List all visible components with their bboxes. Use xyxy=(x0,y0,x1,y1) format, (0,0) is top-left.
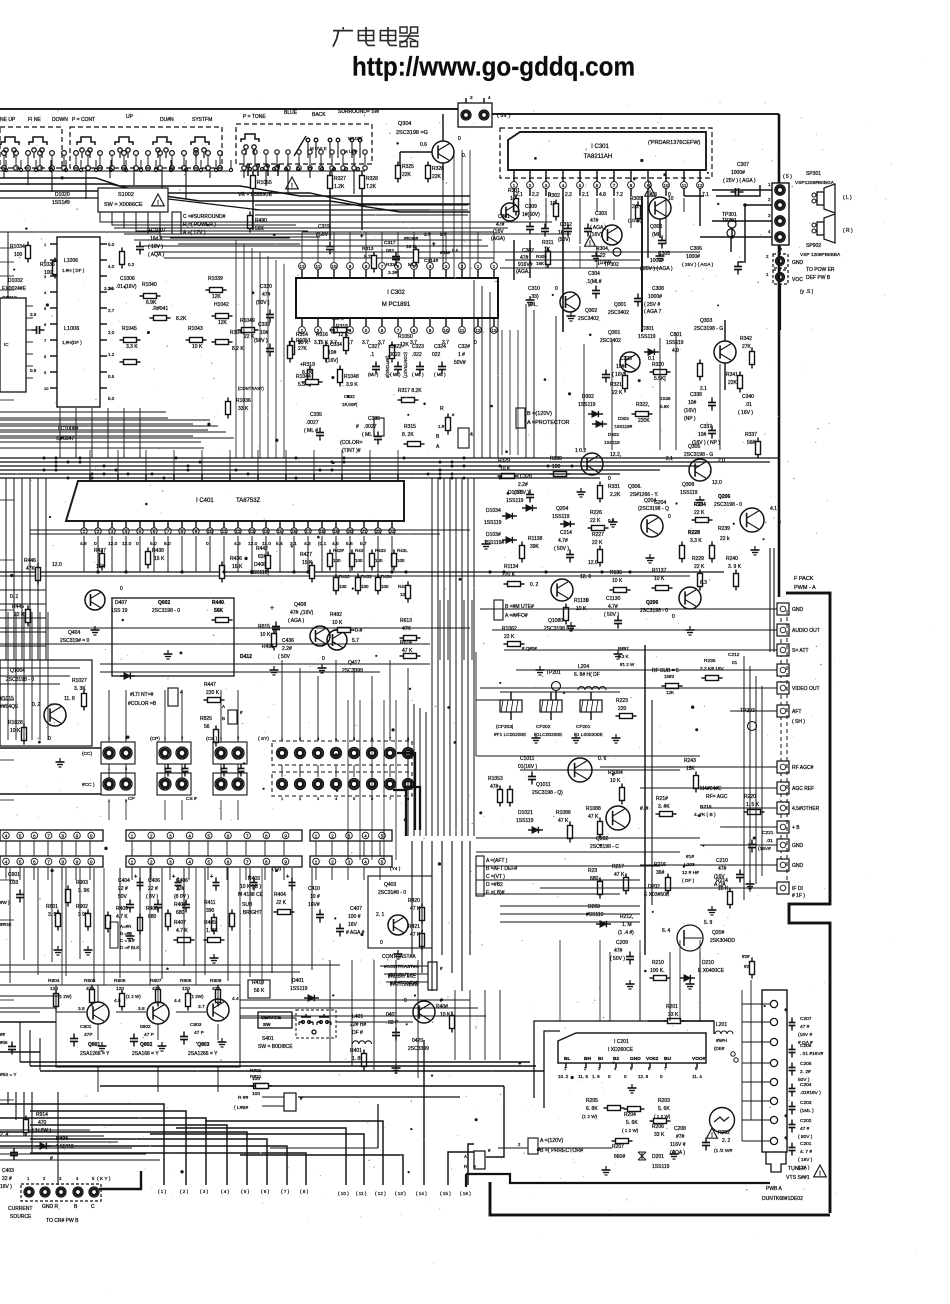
svg-text:10: 10 xyxy=(550,201,556,207)
svg-text:1. M: 1. M xyxy=(622,922,632,928)
svg-text:R914: R914 xyxy=(36,1112,48,1118)
svg-text:16K: 16K xyxy=(536,261,544,266)
svg-text:4: 4 xyxy=(180,690,183,696)
svg-text:(50V ): (50V ) xyxy=(254,338,268,344)
svg-text:SW = X0066CE: SW = X0066CE xyxy=(104,202,143,208)
svg-text:15 K: 15 K xyxy=(232,564,243,570)
svg-text:Q403: Q403 xyxy=(384,882,396,888)
svg-text:1SS119: 1SS119 xyxy=(506,498,524,504)
svg-text:10: 10 xyxy=(668,196,674,202)
svg-text:47 P: 47 P xyxy=(194,1030,204,1036)
svg-text:R1086: R1086 xyxy=(556,810,571,816)
svg-text:4.4: 4.4 xyxy=(174,998,181,1004)
svg-text:2SC3402: 2SC3402 xyxy=(578,316,599,322)
svg-text:(16V#: (16V# xyxy=(758,846,771,852)
svg-text:C205: C205 xyxy=(800,1061,812,1067)
svg-text:+: + xyxy=(286,874,289,880)
svg-text:1 #: 1 # xyxy=(458,352,465,358)
svg-text:A =(AFT ): A =(AFT ) xyxy=(486,858,508,864)
svg-text:10#: 10# xyxy=(616,364,625,370)
svg-text:8.2K: 8.2K xyxy=(302,370,313,376)
svg-text:33 P: 33 P xyxy=(388,1020,399,1026)
svg-text:VSP 1208PB0BBA: VSP 1208PB0BBA xyxy=(800,252,841,258)
svg-text:4.7#: 4.7# xyxy=(558,538,568,544)
svg-text:10 K ( B ): 10 K ( B ) xyxy=(240,884,261,890)
svg-text:R432: R432 xyxy=(361,574,372,579)
svg-text:A: A xyxy=(222,704,225,709)
svg-text:2.2 K# 16V: 2.2 K# 16V xyxy=(700,666,725,672)
svg-text:2SC3402: 2SC3402 xyxy=(608,310,629,316)
svg-text:5. 6K: 5. 6K xyxy=(658,1106,670,1112)
svg-text:2. 1: 2. 1 xyxy=(376,912,385,918)
svg-text:R207: R207 xyxy=(612,1144,624,1150)
svg-text:15K: 15K xyxy=(96,564,106,570)
svg-text:13: 13 xyxy=(491,328,497,333)
svg-text:100: 100 xyxy=(355,558,363,563)
svg-text:120: 120 xyxy=(116,986,124,992)
svg-text:C403: C403 xyxy=(2,1168,14,1174)
svg-text:!: ! xyxy=(589,241,591,247)
svg-text:I C302: I C302 xyxy=(387,290,405,296)
svg-text:3.9: 3.9 xyxy=(30,312,37,317)
svg-text:( 25V ) ( AGA ): ( 25V ) ( AGA ) xyxy=(723,178,756,184)
svg-text:R217: R217 xyxy=(612,864,624,870)
svg-text:R433: R433 xyxy=(375,548,386,553)
svg-text:SW = B0DI8CE: SW = B0DI8CE xyxy=(258,1044,293,1050)
svg-text:R491: R491 xyxy=(262,644,274,650)
svg-text:4. 7 #: 4. 7 # xyxy=(800,1149,812,1155)
svg-text:B2: B2 xyxy=(613,1056,619,1062)
svg-text:A =(120V): A =(120V) xyxy=(540,1138,563,1144)
svg-text:(1ML ): (1ML ) xyxy=(800,1108,814,1114)
svg-text:('PRDAR1376CEFW): ('PRDAR1376CEFW) xyxy=(648,140,701,146)
svg-text:R1053: R1053 xyxy=(488,776,503,782)
svg-text:TO POW ER: TO POW ER xyxy=(806,267,835,273)
svg-text:.01 (16V): .01 (16V) xyxy=(116,284,137,290)
svg-text:0: 0 xyxy=(608,1074,611,1079)
svg-text:D303: D303 xyxy=(618,416,629,421)
svg-text:R1134: R1134 xyxy=(504,564,519,570)
svg-text:L1006: L1006 xyxy=(64,258,78,264)
svg-text:TP301: TP301 xyxy=(722,212,737,218)
svg-text:!: ! xyxy=(711,1133,713,1139)
svg-text:0: 0 xyxy=(206,541,209,547)
svg-text:2.2: 2.2 xyxy=(532,192,539,198)
svg-text:470: 470 xyxy=(38,1120,47,1126)
svg-text:2SC3198 =G: 2SC3198 =G xyxy=(396,130,428,136)
svg-text:39K: 39K xyxy=(530,544,540,550)
svg-text:D103#: D103# xyxy=(486,532,501,538)
svg-text:0: 0 xyxy=(778,520,781,526)
svg-text:.1(ML#: .1(ML# xyxy=(586,279,602,285)
svg-text:#COLOR =B: #COLOR =B xyxy=(128,701,157,707)
svg-text:22# H#: 22# H# xyxy=(350,1022,366,1028)
svg-text:SP301: SP301 xyxy=(806,171,821,177)
svg-text:D412: D412 xyxy=(240,654,252,660)
svg-text:12. 0: 12. 0 xyxy=(580,574,591,580)
svg-text:L1006: L1006 xyxy=(64,326,79,332)
svg-text:( 25V #: ( 25V # xyxy=(644,302,660,308)
svg-text:100: 100 xyxy=(339,584,347,589)
svg-text:11: 11 xyxy=(222,529,227,534)
svg-text:GND: GND xyxy=(630,1056,641,1062)
svg-text:1. 5 K: 1. 5 K xyxy=(746,802,760,808)
svg-text:12: 12 xyxy=(235,529,241,534)
svg-text:# P#TONE#B: # P#TONE#B xyxy=(390,980,419,986)
svg-text:. 01 #16V#: . 01 #16V# xyxy=(800,1051,824,1057)
svg-text:.0022: .0022 xyxy=(388,352,401,358)
svg-text:( 15 ): ( 15 ) xyxy=(440,1191,451,1196)
svg-text:R806: R806 xyxy=(180,978,192,984)
svg-text:A =PROTECTOR: A =PROTECTOR xyxy=(527,420,570,426)
svg-text:(CF203|: (CF203| xyxy=(496,724,513,730)
svg-text:( 50V ): ( 50V ) xyxy=(610,956,625,962)
svg-text:GND: GND xyxy=(792,863,804,869)
svg-text:12.0: 12.0 xyxy=(122,541,132,547)
svg-text:12K: 12K xyxy=(218,320,228,326)
svg-text:R825: R825 xyxy=(200,716,212,722)
svg-text:( 5 ): ( 5 ) xyxy=(241,1189,250,1194)
svg-text:( 50V ): ( 50V ) xyxy=(554,546,569,552)
svg-text:( 25V ) ( AGA ): ( 25V ) ( AGA ) xyxy=(640,266,673,272)
svg-text:1.2K: 1.2K xyxy=(334,184,345,190)
svg-text:0: 0 xyxy=(94,541,97,547)
svg-text:D407: D407 xyxy=(115,600,127,606)
svg-text:( 7A ): ( 7A ) xyxy=(798,1165,810,1171)
svg-text::L#6047: :L#6047 xyxy=(56,436,74,442)
svg-text:12.0: 12.0 xyxy=(108,541,118,547)
svg-text:2.2#: 2.2# xyxy=(518,482,528,488)
svg-text:R309: R309 xyxy=(536,254,547,259)
svg-text:A=#R: A=#R xyxy=(120,924,132,929)
svg-text:16: 16 xyxy=(291,529,297,534)
svg-text:116V #: 116V # xyxy=(670,1142,686,1148)
svg-text:R218: R218 xyxy=(700,804,712,810)
svg-text:17: 17 xyxy=(305,529,311,534)
svg-text:R315: R315 xyxy=(404,424,416,430)
svg-text:Q206: Q206 xyxy=(646,600,658,606)
svg-text:C =(VT ): C =(VT ) xyxy=(486,874,505,880)
svg-text:3.8: 3.8 xyxy=(78,1006,85,1012)
svg-text:C203: C203 xyxy=(800,1100,812,1106)
svg-text:2SC319# = 0: 2SC319# = 0 xyxy=(60,638,90,644)
svg-text:11: 11 xyxy=(460,328,465,333)
svg-text:4.3: 4.3 xyxy=(304,541,311,547)
svg-text:R902: R902 xyxy=(76,904,88,910)
svg-text:2SC3399: 2SC3399 xyxy=(342,668,363,674)
svg-text:22 K: 22 K xyxy=(504,634,515,640)
svg-text:4.4: 4.4 xyxy=(232,996,239,1002)
svg-text:(1 2 W): (1 2 W) xyxy=(582,1114,598,1119)
svg-text:Q801: Q801 xyxy=(88,1042,100,1048)
svg-text:100: 100 xyxy=(14,252,23,258)
svg-text:R1088: R1088 xyxy=(586,806,601,812)
svg-text:DUNTK68#1DE02: DUNTK68#1DE02 xyxy=(762,1196,803,1202)
svg-text:5.0: 5.0 xyxy=(108,242,115,247)
svg-text:( L#B#: ( L#B# xyxy=(234,1105,248,1111)
svg-text:EX0024#E: EX0024#E xyxy=(2,286,27,292)
svg-text:R329: R329 xyxy=(498,458,510,464)
svg-text:F1LC00200E: F1LC00200E xyxy=(534,732,562,738)
svg-text:R228: R228 xyxy=(688,530,700,536)
svg-text:4.1: 4.1 xyxy=(770,506,777,512)
svg-text:11: 11 xyxy=(682,183,687,188)
svg-text:# 1F ): # 1F ) xyxy=(792,893,805,899)
svg-text:I C301: I C301 xyxy=(591,144,609,150)
svg-text:R43L: R43L xyxy=(397,548,408,553)
svg-text:5.6: 5.6 xyxy=(346,541,353,547)
svg-text:1,#H(DF ): 1,#H(DF ) xyxy=(62,340,82,345)
svg-text:R410: R410 xyxy=(339,574,350,579)
svg-text:4.5#OTHER: 4.5#OTHER xyxy=(792,806,820,812)
svg-text:!: ! xyxy=(649,191,651,197)
svg-text:DEF PW B: DEF PW B xyxy=(806,275,831,281)
svg-text:AGC REF: AGC REF xyxy=(792,786,814,792)
svg-text:0-#: 0-# xyxy=(355,628,362,634)
svg-text:R334: R334 xyxy=(386,262,398,268)
svg-text:860#: 860# xyxy=(614,1154,625,1160)
svg-text:Q417: Q417 xyxy=(348,660,360,666)
svg-text:B =( PRRECTOR#: B =( PRRECTOR# xyxy=(540,1148,583,1154)
svg-text:Q308: Q308 xyxy=(682,482,694,488)
svg-text:( 11 ): ( 11 ) xyxy=(356,1191,367,1196)
svg-text:. BRIGHT: . BRIGHT xyxy=(240,910,262,916)
svg-text:(ML ): (ML ) xyxy=(368,372,379,377)
svg-text:21: 21 xyxy=(361,529,367,534)
svg-text:(1 .4 #): (1 .4 #) xyxy=(618,930,634,936)
svg-text:0: 0 xyxy=(322,656,325,662)
svg-text:22K: 22K xyxy=(728,380,738,386)
svg-text:R42#: R42# xyxy=(333,548,344,553)
svg-text:8.0: 8.0 xyxy=(164,541,171,547)
svg-text:R43!: R43! xyxy=(355,548,365,553)
svg-text:Q202: Q202 xyxy=(596,836,608,842)
svg-text:R243: R243 xyxy=(684,758,696,764)
svg-text:4.7 K: 4.7 K xyxy=(176,928,188,934)
svg-text:#1#: #1# xyxy=(686,854,694,860)
svg-text:0: 0 xyxy=(668,514,671,520)
svg-text:+C1007: +C1007 xyxy=(148,228,166,234)
svg-text:GND R: GND R xyxy=(42,1204,59,1210)
svg-text:C314#: C314# xyxy=(424,258,438,264)
svg-text:1SS119: 1SS119 xyxy=(652,1164,670,1170)
svg-text:2. 4: 2. 4 xyxy=(0,1132,9,1138)
svg-text:PWM - A: PWM - A xyxy=(794,585,816,591)
svg-text:12: 12 xyxy=(299,264,305,269)
svg-text:1#,50#(: 1#,50#( xyxy=(342,402,358,407)
svg-text:10. 2: 10. 2 xyxy=(558,1074,569,1079)
svg-text:#R30#: #R30# xyxy=(404,236,418,242)
svg-text:C1130: C1130 xyxy=(606,596,621,602)
svg-text:0: 0 xyxy=(458,136,461,142)
svg-text:2.2: 2.2 xyxy=(565,192,572,198)
svg-text:R212,: R212, xyxy=(620,914,633,920)
svg-text:( ML ): ( ML ) xyxy=(362,432,375,438)
svg-text:10#: 10# xyxy=(688,400,697,406)
svg-text:R ##: R ## xyxy=(238,1095,248,1101)
svg-text:E X0400CE: E X0400CE xyxy=(698,968,725,974)
svg-text:0: 0 xyxy=(404,998,407,1004)
svg-text:R1028: R1028 xyxy=(8,720,23,726)
svg-text:W1DE(: W1DE( xyxy=(348,136,363,141)
svg-text:1.#H ( DF ): 1.#H ( DF ) xyxy=(62,268,85,273)
svg-text:GND: GND xyxy=(792,260,804,266)
svg-text:1SS119: 1SS119 xyxy=(290,986,308,992)
svg-text:R337: R337 xyxy=(745,432,757,438)
svg-text:C212: C212 xyxy=(728,652,740,658)
svg-text:R409: R409 xyxy=(116,906,128,912)
svg-text:R436: R436 xyxy=(230,556,242,562)
svg-text:#06: #06 xyxy=(0,1040,8,1045)
svg-text:C406: C406 xyxy=(176,878,188,884)
svg-text:CS #: CS # xyxy=(186,796,197,802)
svg-text:R#21: R#21 xyxy=(250,1074,262,1080)
svg-text:12K: 12K xyxy=(666,690,674,695)
svg-text:IF DI: IF DI xyxy=(792,886,803,892)
svg-text:10 K: 10 K xyxy=(500,466,511,472)
svg-text:12. 9: 12. 9 xyxy=(638,1074,649,1079)
svg-text:+: + xyxy=(432,242,436,248)
svg-text:R136: R136 xyxy=(610,570,622,576)
svg-text:4.5: 4.5 xyxy=(332,541,339,547)
svg-text:J2 K: J2 K xyxy=(276,900,287,906)
svg-text:VOO#: VOO# xyxy=(692,1056,706,1062)
svg-text:0: 0 xyxy=(120,586,123,592)
svg-text:10: 10 xyxy=(44,386,49,391)
svg-text:D1034: D1034 xyxy=(486,508,501,514)
svg-text:16V#: 16V# xyxy=(308,902,320,908)
svg-text:R440: R440 xyxy=(212,600,224,606)
svg-text:C308: C308 xyxy=(652,286,664,292)
svg-text:##: ## xyxy=(0,1032,6,1037)
svg-text:#: # xyxy=(356,424,359,430)
svg-text:2SC3198 - C: 2SC3198 - C xyxy=(590,844,619,850)
svg-text:D1032: D1032 xyxy=(8,278,23,284)
svg-text:R1043: R1043 xyxy=(188,326,203,332)
svg-text:10#: 10# xyxy=(698,432,707,438)
svg-text:22 K: 22 K xyxy=(590,518,601,524)
svg-text:C801: C801 xyxy=(80,1024,92,1030)
svg-text:'Q803: 'Q803 xyxy=(196,1042,210,1048)
svg-text:22 K: 22 K xyxy=(694,510,705,516)
svg-text:5. 6K: 5. 6K xyxy=(626,1120,638,1126)
svg-text:D408: D408 xyxy=(254,562,266,568)
svg-text:0: 0 xyxy=(672,614,675,620)
svg-text:M DVI E: M DVI E xyxy=(310,146,327,151)
svg-text:Q802: Q802 xyxy=(140,1042,152,1048)
svg-text:2. 2: 2. 2 xyxy=(722,1138,731,1144)
svg-text:Q301: Q301 xyxy=(614,302,626,308)
svg-text:Q301: Q301 xyxy=(608,330,620,336)
svg-text:56: 56 xyxy=(204,724,210,730)
svg-text:2.2#: 2.2# xyxy=(282,646,292,652)
svg-text:220: 220 xyxy=(618,706,627,712)
svg-text:10 K: 10 K xyxy=(260,632,271,638)
svg-text:C206: C206 xyxy=(800,1043,812,1049)
svg-text:C336: C336 xyxy=(368,416,380,422)
svg-text:47#: 47# xyxy=(496,222,505,228)
svg-text:C214: C214 xyxy=(560,530,572,536)
svg-text:5.7: 5.7 xyxy=(360,541,367,547)
svg-text:B =(120V): B =(120V) xyxy=(527,411,552,417)
svg-text:(1 2W): (1 2W) xyxy=(190,994,204,999)
svg-text:C436: C436 xyxy=(282,638,294,644)
svg-text:( DF ): ( DF ) xyxy=(682,878,695,884)
svg-text:!: ! xyxy=(819,1172,821,1178)
svg-text:( 5 ): ( 5 ) xyxy=(783,174,792,180)
svg-text:16V ): 16V ) xyxy=(0,1184,12,1190)
svg-text:C310: C310 xyxy=(528,286,540,292)
svg-text:R313: R313 xyxy=(362,246,374,252)
svg-text:Q204: Q204 xyxy=(556,506,568,512)
svg-text:1. 9: 1. 9 xyxy=(592,1074,600,1079)
svg-text:( K Y ): ( K Y ) xyxy=(97,1176,111,1182)
svg-text:(y .S ): (y .S ) xyxy=(800,289,814,295)
svg-text:NE UP: NE UP xyxy=(0,117,16,123)
svg-text:(CONTRAST): (CONTRAST) xyxy=(403,352,408,378)
svg-text:( 10V ): ( 10V ) xyxy=(148,244,163,250)
svg-text:22: 22 xyxy=(600,253,606,259)
svg-text:12.0: 12.0 xyxy=(712,480,722,486)
svg-text:0. 2: 0. 2 xyxy=(32,702,41,708)
svg-text:0.5: 0.5 xyxy=(108,374,115,379)
svg-text:D201: D201 xyxy=(652,1154,664,1160)
svg-text:2.1: 2.1 xyxy=(666,456,673,462)
svg-text:C210: C210 xyxy=(716,858,728,864)
svg-text:10 K: 10 K xyxy=(332,620,343,626)
svg-text:3.3#: 3.3# xyxy=(388,270,398,276)
svg-text:Q20#: Q20# xyxy=(712,930,724,936)
svg-text:5.5: 5.5 xyxy=(452,248,459,253)
svg-text:A =##FO#: A =##FO# xyxy=(505,613,528,619)
svg-text:R320: R320 xyxy=(652,362,664,368)
svg-text:RF AGC#: RF AGC# xyxy=(792,765,814,771)
svg-text:R490: R490 xyxy=(255,218,267,224)
svg-text:(AGA.: (AGA. xyxy=(516,269,530,275)
svg-text:6. 4: 6. 4 xyxy=(662,928,671,934)
svg-text:11. 4: 11. 4 xyxy=(692,1074,702,1079)
svg-text:3.7: 3.7 xyxy=(198,1004,205,1010)
svg-text:F PACK: F PACK xyxy=(794,576,814,582)
svg-text:10: 10 xyxy=(663,183,669,188)
svg-text:47K: 47K xyxy=(402,626,412,632)
svg-text:BL: BL xyxy=(564,1056,570,1062)
svg-text:R1137: R1137 xyxy=(652,568,667,574)
svg-text:23: 23 xyxy=(389,529,395,534)
svg-text:Q302: Q302 xyxy=(585,308,597,314)
svg-text:R1138: R1138 xyxy=(528,536,543,542)
svg-text:+: + xyxy=(784,1008,788,1014)
svg-text:C317: C317 xyxy=(384,240,396,246)
svg-text:Q1004: Q1004 xyxy=(10,668,25,674)
svg-text:#7#: #7# xyxy=(676,1134,685,1140)
svg-text:4.5: 4.5 xyxy=(114,998,121,1004)
svg-text:1SS119: 1SS119 xyxy=(638,334,656,340)
svg-text:5.7: 5.7 xyxy=(424,232,431,237)
svg-text:12.0: 12.0 xyxy=(52,562,62,568)
svg-text:I C401: I C401 xyxy=(196,498,214,504)
svg-text:SW: SW xyxy=(263,1022,271,1027)
svg-text:47 K: 47 K xyxy=(558,818,569,824)
svg-text:R1055: R1055 xyxy=(257,180,272,186)
svg-text:+: + xyxy=(210,874,213,880)
svg-text:BLUE: BLUE xyxy=(284,110,298,116)
svg-text:GND: GND xyxy=(792,607,804,613)
svg-text:10: 10 xyxy=(510,196,516,202)
svg-text:2SC3198 - 0: 2SC3198 - 0 xyxy=(152,608,180,614)
svg-text:( 12 ): ( 12 ) xyxy=(375,1191,386,1196)
svg-text:C201: C201 xyxy=(800,1141,812,1147)
